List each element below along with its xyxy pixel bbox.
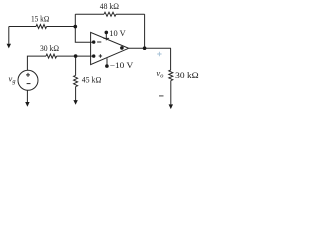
output terminal dot: [120, 46, 124, 50]
op-amp non-inverting input marker: [99, 54, 102, 57]
resistor R 30 k&#937; (input): [46, 54, 57, 58]
wire (45k branch): [75, 56, 77, 75]
wire: [75, 27, 93, 43]
wire: [74, 14, 76, 26]
svg-text:45 kΩ: 45 kΩ: [82, 75, 102, 84]
wire: [116, 13, 145, 15]
ground arrowhead (left): [7, 44, 11, 49]
wire: [9, 26, 36, 28]
junction node (15k/48k/inverting input): [74, 25, 78, 29]
wire: [75, 87, 77, 102]
svg-text:30 kΩ: 30 kΩ: [40, 44, 59, 53]
resistor R 15 k&#937;: [36, 25, 47, 29]
inverting input terminal dot: [92, 40, 95, 43]
negative supply terminal dot: [105, 64, 109, 68]
svg-text:48 kΩ: 48 kΩ: [100, 2, 119, 11]
non-inverting input terminal dot: [92, 54, 95, 57]
ground arrowhead (45k bottom): [73, 100, 77, 105]
source minus marker: [27, 83, 31, 85]
positive supply terminal dot: [105, 31, 109, 35]
op-amp inverting input marker: [97, 41, 101, 43]
wire: [144, 14, 146, 48]
wire: [47, 26, 76, 28]
resistor R 45 k&#937;: [74, 75, 78, 86]
source vg top wire: [27, 56, 46, 70]
positive supply plus tick: [104, 37, 110, 39]
svg-text:vg: vg: [9, 73, 16, 85]
resistor RL 30 k&#937; (load): [169, 70, 173, 81]
negative supply stub: [106, 58, 108, 64]
output minus sign: [159, 95, 164, 97]
wire: [75, 13, 104, 15]
wire (op-amp output): [129, 47, 171, 49]
svg-text:−10 V: −10 V: [110, 61, 133, 70]
positive supply stub: [105, 34, 107, 41]
wire: [170, 81, 172, 105]
svg-text:15 kΩ: 15 kΩ: [31, 15, 49, 24]
wire: [57, 55, 93, 57]
wire (source bottom): [26, 90, 28, 102]
svg-text:30 kΩ: 30 kΩ: [175, 71, 199, 80]
op-amp U1 triangle: [91, 32, 129, 64]
resistor R 48 k&#937; (feedback): [104, 12, 116, 16]
junction node (30k/45k): [74, 54, 78, 58]
ground arrowhead (source bottom): [25, 102, 29, 107]
output plus sign: [157, 52, 161, 56]
source plus marker: [26, 73, 30, 77]
svg-text:10 V: 10 V: [109, 29, 125, 38]
voltage source vg circle: [18, 70, 38, 90]
svg-text:vo: vo: [156, 68, 163, 80]
junction node (output/feedback): [143, 46, 147, 50]
wire (load branch down): [170, 48, 172, 70]
ground arrowhead (load bottom): [169, 104, 173, 109]
ground arrow (left, input reference): [8, 27, 10, 44]
